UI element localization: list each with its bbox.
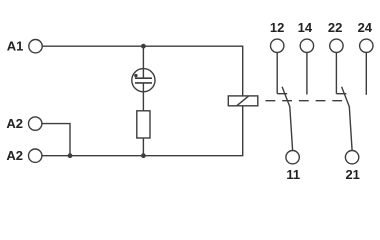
- indicator top plate: [135, 77, 152, 79]
- svg-text:A2: A2: [6, 116, 23, 131]
- terminal 11: [286, 151, 299, 164]
- wire down to indicator: [142, 46, 144, 78]
- node junction A2 branch: [68, 153, 73, 158]
- LED indicator circle: [132, 69, 155, 92]
- wire terminal 14: [306, 53, 308, 95]
- svg-text:11: 11: [286, 167, 300, 182]
- changeover contact arm 1: [282, 87, 293, 151]
- changeover contact arm 2: [342, 87, 353, 151]
- terminal A1: [29, 40, 42, 53]
- indicator bottom plate: [135, 82, 152, 84]
- terminal A2 upper: [29, 117, 42, 130]
- terminal A2 lower: [29, 149, 42, 162]
- wire resistor to bottom rail: [142, 138, 144, 156]
- svg-text:12: 12: [270, 20, 284, 35]
- svg-text:A2: A2: [6, 148, 23, 163]
- wire terminal 12: [276, 53, 278, 94]
- wire terminal 22: [335, 53, 337, 94]
- wire A2 upper to bottom rail: [42, 124, 70, 156]
- svg-text:A1: A1: [7, 39, 24, 54]
- terminal 12: [271, 39, 284, 52]
- svg-text:14: 14: [298, 20, 313, 35]
- svg-text:22: 22: [328, 20, 342, 35]
- terminal 24: [360, 39, 373, 52]
- mechanical linkage dashed line: [266, 100, 345, 102]
- relay coil K: [228, 96, 257, 106]
- terminal 21: [345, 151, 358, 164]
- node junction top: [141, 44, 146, 49]
- node junction resistor bottom: [141, 153, 146, 158]
- svg-text:24: 24: [358, 20, 373, 35]
- wire indicator to resistor: [142, 83, 144, 111]
- wire A1 top rail: [42, 46, 243, 96]
- svg-text:21: 21: [345, 167, 359, 182]
- NC contact bar 12: [277, 93, 287, 95]
- terminal 22: [330, 39, 343, 52]
- wire terminal 24: [365, 53, 367, 95]
- wire A2 bottom rail: [42, 106, 243, 156]
- indicator polarity dot: [134, 74, 137, 77]
- terminal 14: [300, 39, 313, 52]
- coil diagonal: [237, 96, 249, 106]
- NC contact bar 22: [336, 93, 346, 95]
- resistor R: [137, 111, 150, 138]
